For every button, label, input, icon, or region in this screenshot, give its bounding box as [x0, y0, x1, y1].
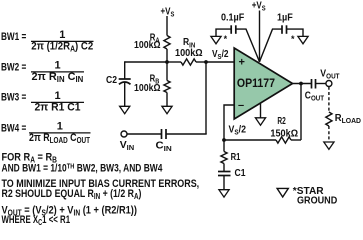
svg-text:1: 1	[54, 90, 60, 102]
ground below RB	[162, 106, 172, 113]
wire +VS down to V+ pin	[259, 11, 261, 62]
node -input junction dot	[222, 138, 226, 142]
capacitor 1uF	[282, 25, 287, 34]
svg-text:1µF: 1µF	[277, 11, 293, 22]
ground at op-amp V-	[255, 118, 265, 125]
svg-text:AND BW1 = 1/10TH BW2, BW3, AND: AND BW1 = 1/10TH BW2, BW3, AND BW4	[2, 163, 163, 175]
capacitor 0.1uF	[231, 25, 236, 34]
terminal VIN circle	[121, 131, 127, 137]
wire 0.1uF to star ground	[216, 29, 231, 36]
svg-text:VS/2: VS/2	[212, 48, 228, 61]
capacitor CIN	[162, 129, 167, 139]
wire to op-amp +input	[206, 61, 234, 63]
wire 0.1uF to V+ pin	[236, 29, 260, 62]
svg-text:*: *	[291, 34, 295, 44]
svg-text:VOUT: VOUT	[320, 68, 340, 81]
wire R2 to -input node	[224, 139, 276, 141]
svg-text:WHERE XC1 << R1: WHERE XC1 << R1	[2, 214, 71, 228]
svg-text:100kΩ: 100kΩ	[134, 82, 161, 93]
ground below C2	[120, 106, 130, 113]
capacitor COUT	[312, 79, 316, 89]
svg-text:R2 SHOULD EQUAL RIN + (1/2 RA): R2 SHOULD EQUAL RIN + (1/2 RA)	[2, 188, 142, 201]
wire +VS to RA	[166, 16, 168, 36]
wire +input node down to CIN	[205, 62, 207, 134]
svg-text:OP1177: OP1177	[237, 78, 275, 91]
wire RB to ground	[166, 93, 168, 107]
svg-text:150kΩ: 150kΩ	[270, 128, 298, 139]
svg-text:COUT: COUT	[305, 90, 324, 103]
node VS/2 junction dot	[165, 60, 169, 64]
wire C1 to ground	[223, 176, 225, 190]
svg-text:BW4 =: BW4 =	[1, 122, 27, 134]
svg-text:2π R1 C1: 2π R1 C1	[35, 101, 81, 113]
wire node to RIN	[167, 61, 181, 63]
svg-text:1: 1	[54, 60, 60, 72]
wire RIN to +input node	[196, 61, 206, 63]
resistor R2	[276, 137, 291, 143]
svg-text:VIN: VIN	[120, 140, 134, 152]
wire V- pin to ground	[260, 103, 262, 118]
wire 1uF to V+ pin	[260, 29, 283, 62]
resistor R1	[221, 152, 227, 164]
svg-text:R1: R1	[231, 151, 241, 162]
terminal VOUT circle	[326, 81, 332, 87]
wire RLOAD to ground (dashed)	[328, 126, 330, 142]
wire COUT to VOUT	[316, 83, 326, 85]
resistor RB	[164, 81, 170, 93]
resistor RIN	[181, 59, 196, 65]
star ground at 0.1uF	[211, 36, 221, 43]
legend star ground symbol	[277, 188, 288, 197]
svg-text:C2: C2	[106, 74, 117, 85]
svg-text:+VS: +VS	[161, 6, 175, 19]
svg-text:–: –	[238, 100, 244, 112]
svg-text:C1: C1	[235, 168, 246, 179]
wire node to RB	[166, 62, 168, 81]
svg-text:100kΩ: 100kΩ	[134, 40, 161, 51]
svg-text:2π RLOAD COUT: 2π RLOAD COUT	[29, 132, 91, 145]
svg-text:VS/2: VS/2	[229, 124, 246, 137]
svg-text:2π RIN CIN: 2π RIN CIN	[32, 71, 84, 84]
svg-text:+: +	[239, 57, 245, 69]
svg-text:1: 1	[57, 121, 63, 133]
wire C2 top	[124, 61, 126, 79]
wire node to R1	[223, 140, 225, 152]
svg-text:GROUND: GROUND	[297, 194, 337, 205]
wire -input	[224, 105, 234, 140]
op-amp U1 OP1177 body	[234, 48, 292, 119]
star ground at 1uF	[298, 36, 308, 43]
capacitor C1	[218, 172, 231, 176]
wire CIN right	[166, 133, 207, 135]
wire R1 to C1	[223, 164, 225, 172]
svg-text:0.1µF: 0.1µF	[221, 11, 244, 22]
wire 1uF to star ground	[287, 29, 304, 36]
wire VOUT to RLOAD (dashed)	[328, 87, 330, 113]
node output junction dot	[299, 82, 303, 86]
wire C2 to ground	[124, 83, 126, 107]
ground below RLOAD	[324, 142, 334, 149]
svg-text:*: *	[224, 34, 228, 44]
svg-text:RLOAD: RLOAD	[335, 113, 361, 125]
wire VIN to CIN	[127, 133, 161, 135]
capacitor C2	[119, 79, 131, 84]
wire output to COUT	[293, 83, 312, 85]
svg-text:R2: R2	[277, 115, 286, 127]
svg-text:BW2 =: BW2 =	[1, 61, 27, 73]
resistor RA	[164, 36, 170, 50]
wire R2 right	[291, 139, 301, 141]
svg-text:BW3 =: BW3 =	[1, 91, 27, 103]
ground below C1	[219, 190, 229, 197]
wire output down to R2	[300, 84, 302, 141]
svg-text:BW1 =: BW1 =	[1, 31, 27, 43]
wire node to C2 branch	[125, 61, 167, 63]
node +input junction dot	[204, 60, 208, 64]
resistor RLOAD	[326, 112, 332, 126]
svg-text:CIN: CIN	[156, 140, 172, 152]
svg-text:2π (1/2RA) C2: 2π (1/2RA) C2	[31, 41, 93, 54]
svg-text:100kΩ: 100kΩ	[175, 48, 203, 59]
svg-text:1: 1	[59, 29, 65, 41]
wire RA to node VS/2	[166, 49, 168, 62]
